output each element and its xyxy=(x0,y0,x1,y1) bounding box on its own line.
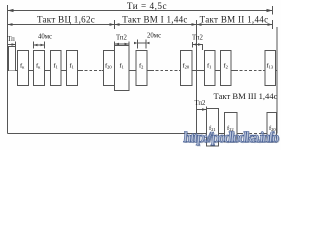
dimension Tp2-3 tick xyxy=(206,107,208,113)
dimension Tp2-2 arrow left xyxy=(193,43,198,46)
dimension 20ms arrow right xyxy=(146,42,150,44)
upper center line dashed segment 1 xyxy=(80,70,102,72)
dimension 20ms arrow left xyxy=(134,42,138,44)
dimension 40ms line xyxy=(34,44,45,46)
dimension Tp2-1 left tick xyxy=(114,42,116,48)
pulse fk 1 xyxy=(18,51,29,86)
svg-text:Тп2: Тп2 xyxy=(195,100,207,107)
axis bottom xyxy=(8,133,241,135)
dimension Ti line xyxy=(8,10,273,12)
dimension Tp line xyxy=(8,44,16,46)
dimension 20ms line xyxy=(138,42,147,44)
svg-text:Тп2: Тп2 xyxy=(192,35,204,42)
svg-text:f1: f1 xyxy=(54,63,58,70)
dimension Ti right arrow xyxy=(267,9,273,12)
svg-text:Тп: Тп xyxy=(7,36,15,43)
dimension 20ms right tick xyxy=(145,40,147,49)
dimension 40ms right tick xyxy=(44,42,46,49)
upper center line dashed segment 3 xyxy=(235,70,263,72)
svg-text:http://podlodka.info: http://podlodka.info xyxy=(182,130,280,146)
svg-text:f2: f2 xyxy=(224,63,228,70)
row2 left tick xyxy=(7,20,9,29)
lower dashed segment xyxy=(240,133,266,135)
wrap line right xyxy=(276,27,278,134)
dimension Ti right tick xyxy=(272,6,274,15)
svg-text:20мс: 20мс xyxy=(147,33,161,40)
dimension 40ms left tick xyxy=(33,42,35,49)
svg-text:Такт ВМ II 1,44с: Такт ВМ II 1,44с xyxy=(200,15,269,25)
pulse f1 VM II xyxy=(205,51,216,86)
dimension Tp2-1 right tick xyxy=(128,42,130,48)
svg-text:40мс: 40мс xyxy=(38,34,52,41)
dimension Tp2-3 arrow xyxy=(202,108,207,111)
pulse f13 VM II xyxy=(265,51,276,86)
svg-text:Такт ВМ I 1,44с: Такт ВМ I 1,44с xyxy=(122,15,187,25)
upper center line solid segments xyxy=(8,70,278,72)
pulse f21 tall VM III xyxy=(207,109,219,147)
pulse f1 a xyxy=(51,51,62,86)
dimension takt line row2 xyxy=(8,24,273,26)
svg-text:Такт ВЦ 1,62с: Такт ВЦ 1,62с xyxy=(37,15,95,25)
row2 arrow at 196 left side xyxy=(192,23,197,26)
axis vertical left xyxy=(7,5,9,134)
svg-text:f13: f13 xyxy=(267,63,274,70)
row2 arrow at 114 right side xyxy=(115,23,120,26)
pulse f20 VM I xyxy=(181,51,193,86)
row2 arrow left out xyxy=(8,23,13,26)
row2 tick x272 xyxy=(272,20,274,29)
upper center line dashed segment 2 xyxy=(151,70,179,72)
dimension Tp2-2 left tick xyxy=(192,42,194,48)
row2 arrow right out xyxy=(268,23,273,26)
pulse fk 2 xyxy=(34,51,45,86)
row2 tick x114 xyxy=(114,20,116,29)
dimension Tp2-1 arrow right xyxy=(125,43,130,46)
boundary line Takt VM I / II xyxy=(196,27,198,134)
svg-text:f1: f1 xyxy=(70,63,74,70)
svg-text:Ти = 4,5с: Ти = 4,5с xyxy=(127,1,167,11)
pulse f20 VM III xyxy=(267,113,277,143)
pulse f2 VM II xyxy=(221,51,232,86)
svg-text:Такт ВМ III 1,44с: Такт ВМ III 1,44с xyxy=(214,91,278,101)
dimension Tp2-1 arrow left xyxy=(115,43,120,46)
dimension Tp tick xyxy=(15,42,17,48)
svg-text:Тп2: Тп2 xyxy=(116,35,128,42)
pulse f2 VM I xyxy=(136,51,147,86)
dimension Tp2-3 line xyxy=(197,109,207,111)
svg-text:f1: f1 xyxy=(207,63,211,70)
dimension 40ms arrow right xyxy=(41,44,45,47)
dimension 20ms left tick xyxy=(137,40,139,49)
dimension Tp2-2 arrow right xyxy=(198,43,203,46)
svg-text:f20: f20 xyxy=(183,63,190,70)
pulse f1 b xyxy=(67,51,78,86)
pulse Tp start xyxy=(9,47,16,71)
row2 arrow at 196 right side xyxy=(197,23,202,26)
dimension Tp2-2 right tick xyxy=(202,44,204,50)
pulse f1 tall VM I xyxy=(115,46,130,91)
pulse f20 VC xyxy=(104,51,115,86)
dimension Tp2-2 line xyxy=(193,44,203,46)
pulse f22 VM III xyxy=(225,113,238,143)
dimension Tp arrow xyxy=(12,43,16,46)
axis bottom solid right part xyxy=(266,133,277,135)
row2 arrow at 114 left side xyxy=(110,23,115,26)
svg-text:f1: f1 xyxy=(120,63,124,70)
row2 tick x196 xyxy=(196,20,198,29)
dimension Tp2-1 line xyxy=(115,43,130,45)
dimension Ti left arrow xyxy=(8,9,14,12)
svg-text:f2: f2 xyxy=(139,63,143,70)
dimension 40ms arrow left xyxy=(34,44,38,47)
svg-text:f20: f20 xyxy=(105,63,112,70)
